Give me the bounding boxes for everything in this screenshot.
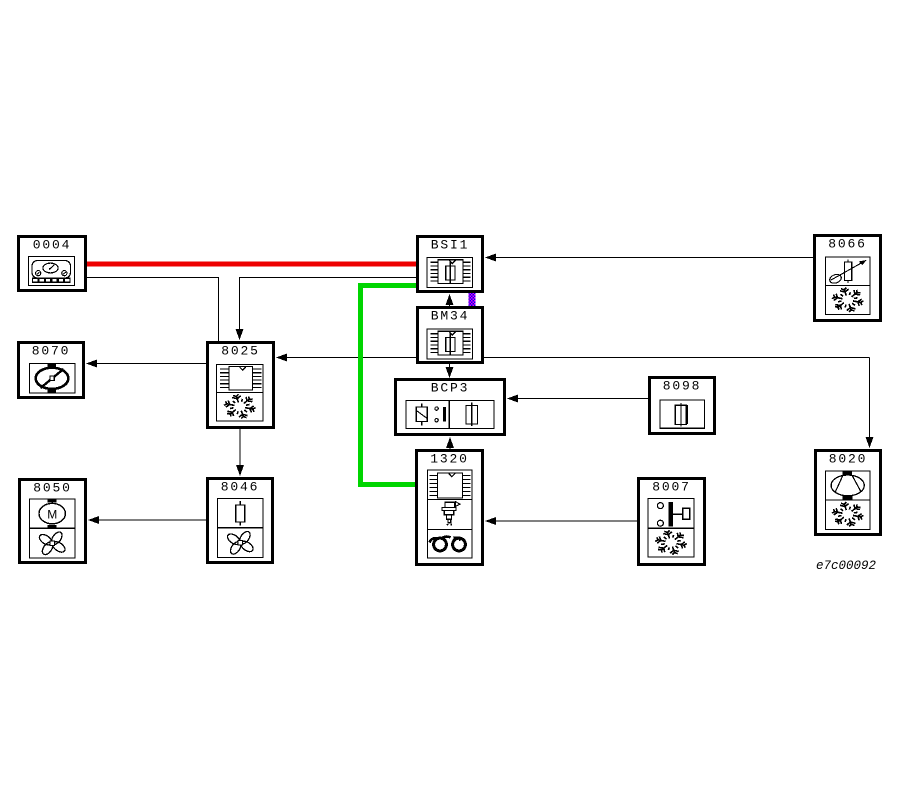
svg-text:BSI1: BSI1 [431, 238, 469, 253]
component BM34 engine compartment fuse-relay box [418, 308, 483, 363]
wire 1320 top to BCP3 bottom (arrow up into BCP3) [446, 437, 454, 449]
wire violet dithered BSI1 bottom to BM34 top [469, 293, 476, 307]
wire 8025 left to 8070 (arrow into 8070) [86, 360, 206, 368]
svg-text:8066: 8066 [828, 237, 866, 252]
svg-text:1320: 1320 [430, 452, 468, 467]
svg-text:8050: 8050 [33, 481, 71, 496]
svg-text:8046: 8046 [221, 480, 259, 495]
component 8070 pressure gauge [19, 343, 84, 398]
svg-text:8007: 8007 [652, 480, 690, 495]
wire green engine-run signal BSI1 to 1320 [361, 286, 418, 485]
component 0004 instrument cluster [19, 237, 86, 291]
wire BSI1 left to 8025 top (arrow into 8025) [236, 278, 417, 341]
component 8098 fuse [650, 378, 715, 434]
wire BM34 bottom to BCP3 top (arrow into BCP3) [446, 364, 454, 378]
wire long 8025 right to 8020 top (arrow into 8025, arrow into 8020) [276, 354, 874, 449]
wire 8046 left to 8050 (arrow into 8050) [88, 516, 206, 524]
wire 8066 to BSI1 right (arrow into BSI1) [485, 254, 813, 262]
op-unit BSI1 built-in systems interface [418, 237, 483, 292]
component 8020 A/C compressor [816, 451, 881, 535]
component 8050 blower motor [20, 480, 86, 563]
svg-text:e7c00092: e7c00092 [816, 559, 877, 573]
svg-text:8025: 8025 [221, 344, 259, 359]
svg-text:M: M [47, 508, 57, 522]
caption e7c00092 [816, 559, 877, 573]
svg-text:8098: 8098 [663, 379, 701, 394]
svg-text:BM34: BM34 [431, 309, 469, 324]
wire BM34 top to BSI1 bottom (arrow up into BSI1) [446, 294, 454, 306]
svg-text:0004: 0004 [33, 238, 71, 253]
component 1320 engine ECU [417, 451, 483, 565]
svg-text:BCP3: BCP3 [431, 381, 469, 396]
svg-text:8070: 8070 [32, 344, 70, 359]
wire 0004 right to node, down into 8025 top [86, 278, 219, 342]
wire red power feed 0004 to BSI1 [86, 262, 417, 267]
component 8025 control unit with A/C function [208, 343, 274, 428]
component 8066 evaporator temperature sensor [815, 236, 881, 321]
wire 8098 to BCP3 right (arrow into BCP3) [507, 395, 648, 403]
wire 8007 to 1320 right (arrow into 1320) [485, 517, 637, 525]
component 8007 A/C pressure switch [639, 479, 705, 565]
component 8046 blower resistor [208, 479, 273, 563]
component BCP3 relay-fuse plate [396, 380, 505, 435]
svg-text:8020: 8020 [829, 452, 867, 467]
wire 8025 bottom to 8046 top (arrow into 8046) [236, 429, 244, 476]
